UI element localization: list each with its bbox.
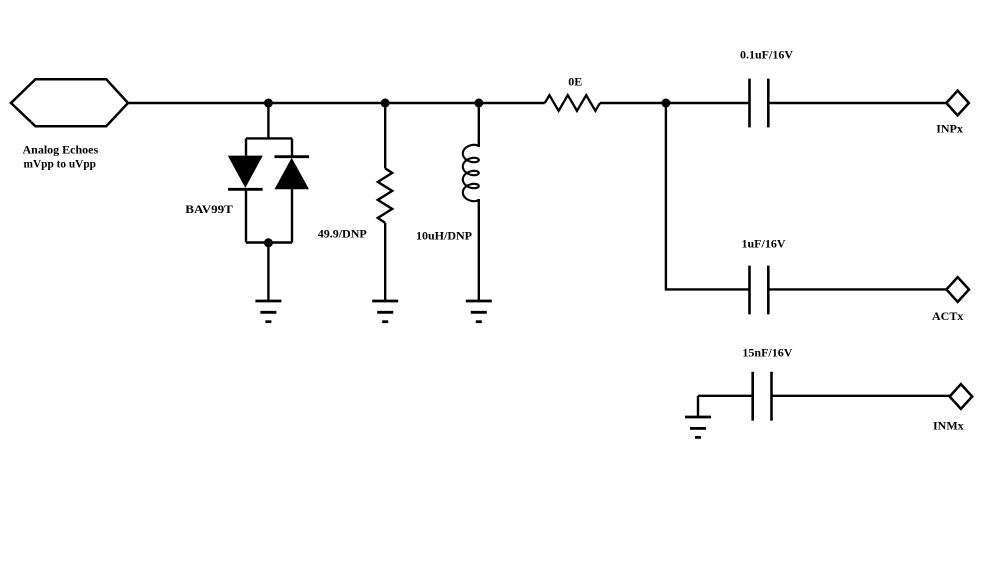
svg-text:INMx: INMx bbox=[933, 418, 964, 432]
svg-text:49.9/DNP: 49.9/DNP bbox=[318, 227, 367, 241]
svg-text:ACTx: ACTx bbox=[932, 309, 963, 323]
svg-text:mVpp to uVpp: mVpp to uVpp bbox=[24, 157, 97, 171]
svg-text:15nF/16V: 15nF/16V bbox=[742, 346, 792, 360]
svg-text:0.1uF/16V: 0.1uF/16V bbox=[740, 48, 793, 62]
svg-text:0E: 0E bbox=[568, 75, 582, 89]
svg-text:1uF/16V: 1uF/16V bbox=[742, 236, 786, 250]
svg-text:10uH/DNP: 10uH/DNP bbox=[416, 229, 472, 243]
svg-text:BAV99T: BAV99T bbox=[185, 202, 233, 216]
svg-text:INPx: INPx bbox=[936, 122, 963, 136]
svg-text:Analog Echoes: Analog Echoes bbox=[23, 142, 99, 156]
